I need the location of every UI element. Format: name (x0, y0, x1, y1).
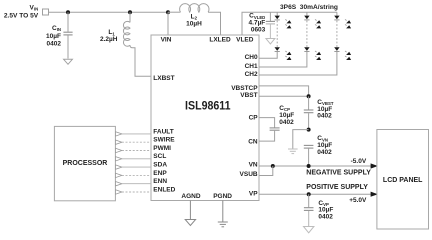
LCD PANEL box (377, 130, 429, 230)
wire dashed series (306, 21, 308, 48)
LED string 3 (CH2) (259, 12, 351, 75)
wire VBSTCP (259, 86, 309, 96)
svg-text:ENN: ENN (153, 178, 167, 185)
wire dashed series (276, 21, 278, 48)
wire VLED rail (242, 12, 337, 35)
ground CVP (304, 227, 314, 233)
svg-text:0402: 0402 (318, 213, 333, 220)
node CVN junction (307, 164, 311, 168)
svg-text:PROCESSOR: PROCESSOR (63, 160, 108, 167)
LED string 2 (CH1) (259, 12, 321, 67)
svg-text:LCD PANEL: LCD PANEL (383, 177, 423, 184)
wire VIN pin drop (167, 12, 169, 35)
LED D2b (304, 47, 309, 51)
ground CVLED (266, 39, 275, 45)
capacitor CVN (304, 145, 314, 166)
svg-text:SDA: SDA (153, 162, 167, 169)
wire to CH0 (259, 52, 277, 58)
svg-text:VLED: VLED (236, 37, 254, 44)
svg-text:0402: 0402 (317, 149, 332, 156)
wire PWMI (116, 148, 122, 152)
wire ENP (116, 173, 122, 177)
wire ground branch (293, 130, 309, 149)
LED D3a (334, 16, 339, 20)
arrow into LCD (VN) (371, 163, 378, 168)
svg-text:PGND: PGND (213, 193, 232, 200)
svg-text:AGND: AGND (181, 193, 200, 200)
svg-text:ENLED: ENLED (153, 186, 175, 193)
node VIN pin junction (166, 10, 170, 14)
node VBST junction (307, 94, 311, 98)
wire (336, 12, 338, 15)
inductor L2 (168, 4, 221, 35)
svg-text:-5.0V: -5.0V (351, 158, 367, 165)
svg-text:0603: 0603 (251, 27, 266, 34)
LED D2a (304, 16, 309, 20)
svg-text:POSITIVE SUPPLY: POSITIVE SUPPLY (306, 184, 368, 191)
svg-text:CN: CN (248, 138, 258, 145)
svg-text:2.5V TO 5V: 2.5V TO 5V (4, 12, 39, 19)
svg-text:VP: VP (249, 190, 258, 197)
svg-text:PWMI: PWMI (153, 145, 171, 152)
wire FAULT (116, 132, 122, 136)
svg-text:0402: 0402 (47, 41, 62, 48)
svg-text:NEGATIVE SUPPLY: NEGATIVE SUPPLY (306, 169, 371, 176)
svg-text:VBST: VBST (240, 92, 257, 99)
LED D1b (275, 47, 280, 51)
wire (276, 12, 278, 15)
svg-text:ISL98611: ISL98611 (185, 99, 231, 112)
wire input rail (49, 11, 169, 13)
capacitor CIN (63, 12, 72, 58)
wire (306, 12, 308, 15)
LED string 1 (CH0) (259, 12, 291, 60)
svg-text:SCL: SCL (153, 153, 166, 160)
capacitor CVBST (304, 96, 314, 129)
svg-text:CH0: CH0 (245, 54, 258, 61)
svg-text:10µF: 10µF (279, 112, 294, 119)
wire SDA (116, 165, 122, 169)
wire SWIRE (116, 140, 122, 144)
svg-text:SWIRE: SWIRE (153, 137, 175, 144)
svg-text:CH1: CH1 (245, 63, 258, 70)
LED D1a (275, 16, 280, 20)
svg-text:0402: 0402 (317, 113, 332, 120)
wire to CH2 (259, 52, 337, 75)
wire to CH1 (259, 52, 307, 67)
PROCESSOR box (54, 126, 115, 200)
ground AGND (185, 201, 195, 226)
inductor L1 (123, 12, 151, 76)
node CVP junction (307, 192, 311, 196)
wire VSUB (259, 166, 273, 176)
svg-text:CH2: CH2 (245, 71, 258, 78)
node VSUB junction (271, 164, 275, 168)
wire VBST (259, 95, 309, 97)
arrow into LCD (VP) (371, 192, 378, 197)
capacitor CCP flying (259, 118, 280, 142)
svg-text:2.2µH: 2.2µH (100, 36, 118, 43)
node CVBST/CVN junction (307, 128, 311, 132)
capacitor CVLED (266, 12, 275, 38)
capacitor CVP (304, 194, 314, 226)
LED D3b (334, 47, 339, 51)
wire dashed series (336, 21, 338, 48)
wire VN to LCD (259, 165, 378, 167)
svg-text:10µF: 10µF (46, 33, 61, 40)
svg-text:+5.0V: +5.0V (349, 197, 367, 204)
svg-text:VSUB: VSUB (240, 171, 258, 178)
svg-text:LXLED: LXLED (209, 37, 231, 44)
ground PGND (218, 201, 228, 227)
svg-text:10µH: 10µH (186, 21, 202, 28)
op IC U1 ISL98611 box (151, 35, 259, 201)
svg-text:0402: 0402 (279, 119, 294, 126)
ground CIN (64, 59, 73, 64)
terminal VIN input (43, 9, 49, 15)
svg-text:FAULT: FAULT (153, 128, 173, 135)
wire SCL (116, 157, 122, 161)
node L1 junction (128, 10, 132, 14)
ground mid earth (288, 149, 298, 154)
wire ENLED (116, 190, 122, 194)
wire VP to LCD (259, 193, 378, 195)
svg-text:VN: VN (249, 162, 258, 169)
svg-text:VIN: VIN (161, 37, 172, 44)
svg-text:4.7µF: 4.7µF (249, 20, 266, 27)
node CIN junction (66, 10, 70, 14)
svg-text:3P6S 30mA/string: 3P6S 30mA/string (280, 4, 338, 11)
svg-text:LXBST: LXBST (153, 75, 174, 82)
svg-text:CP: CP (249, 114, 259, 121)
wire ENN (116, 182, 122, 186)
svg-text:ENP: ENP (153, 170, 167, 177)
